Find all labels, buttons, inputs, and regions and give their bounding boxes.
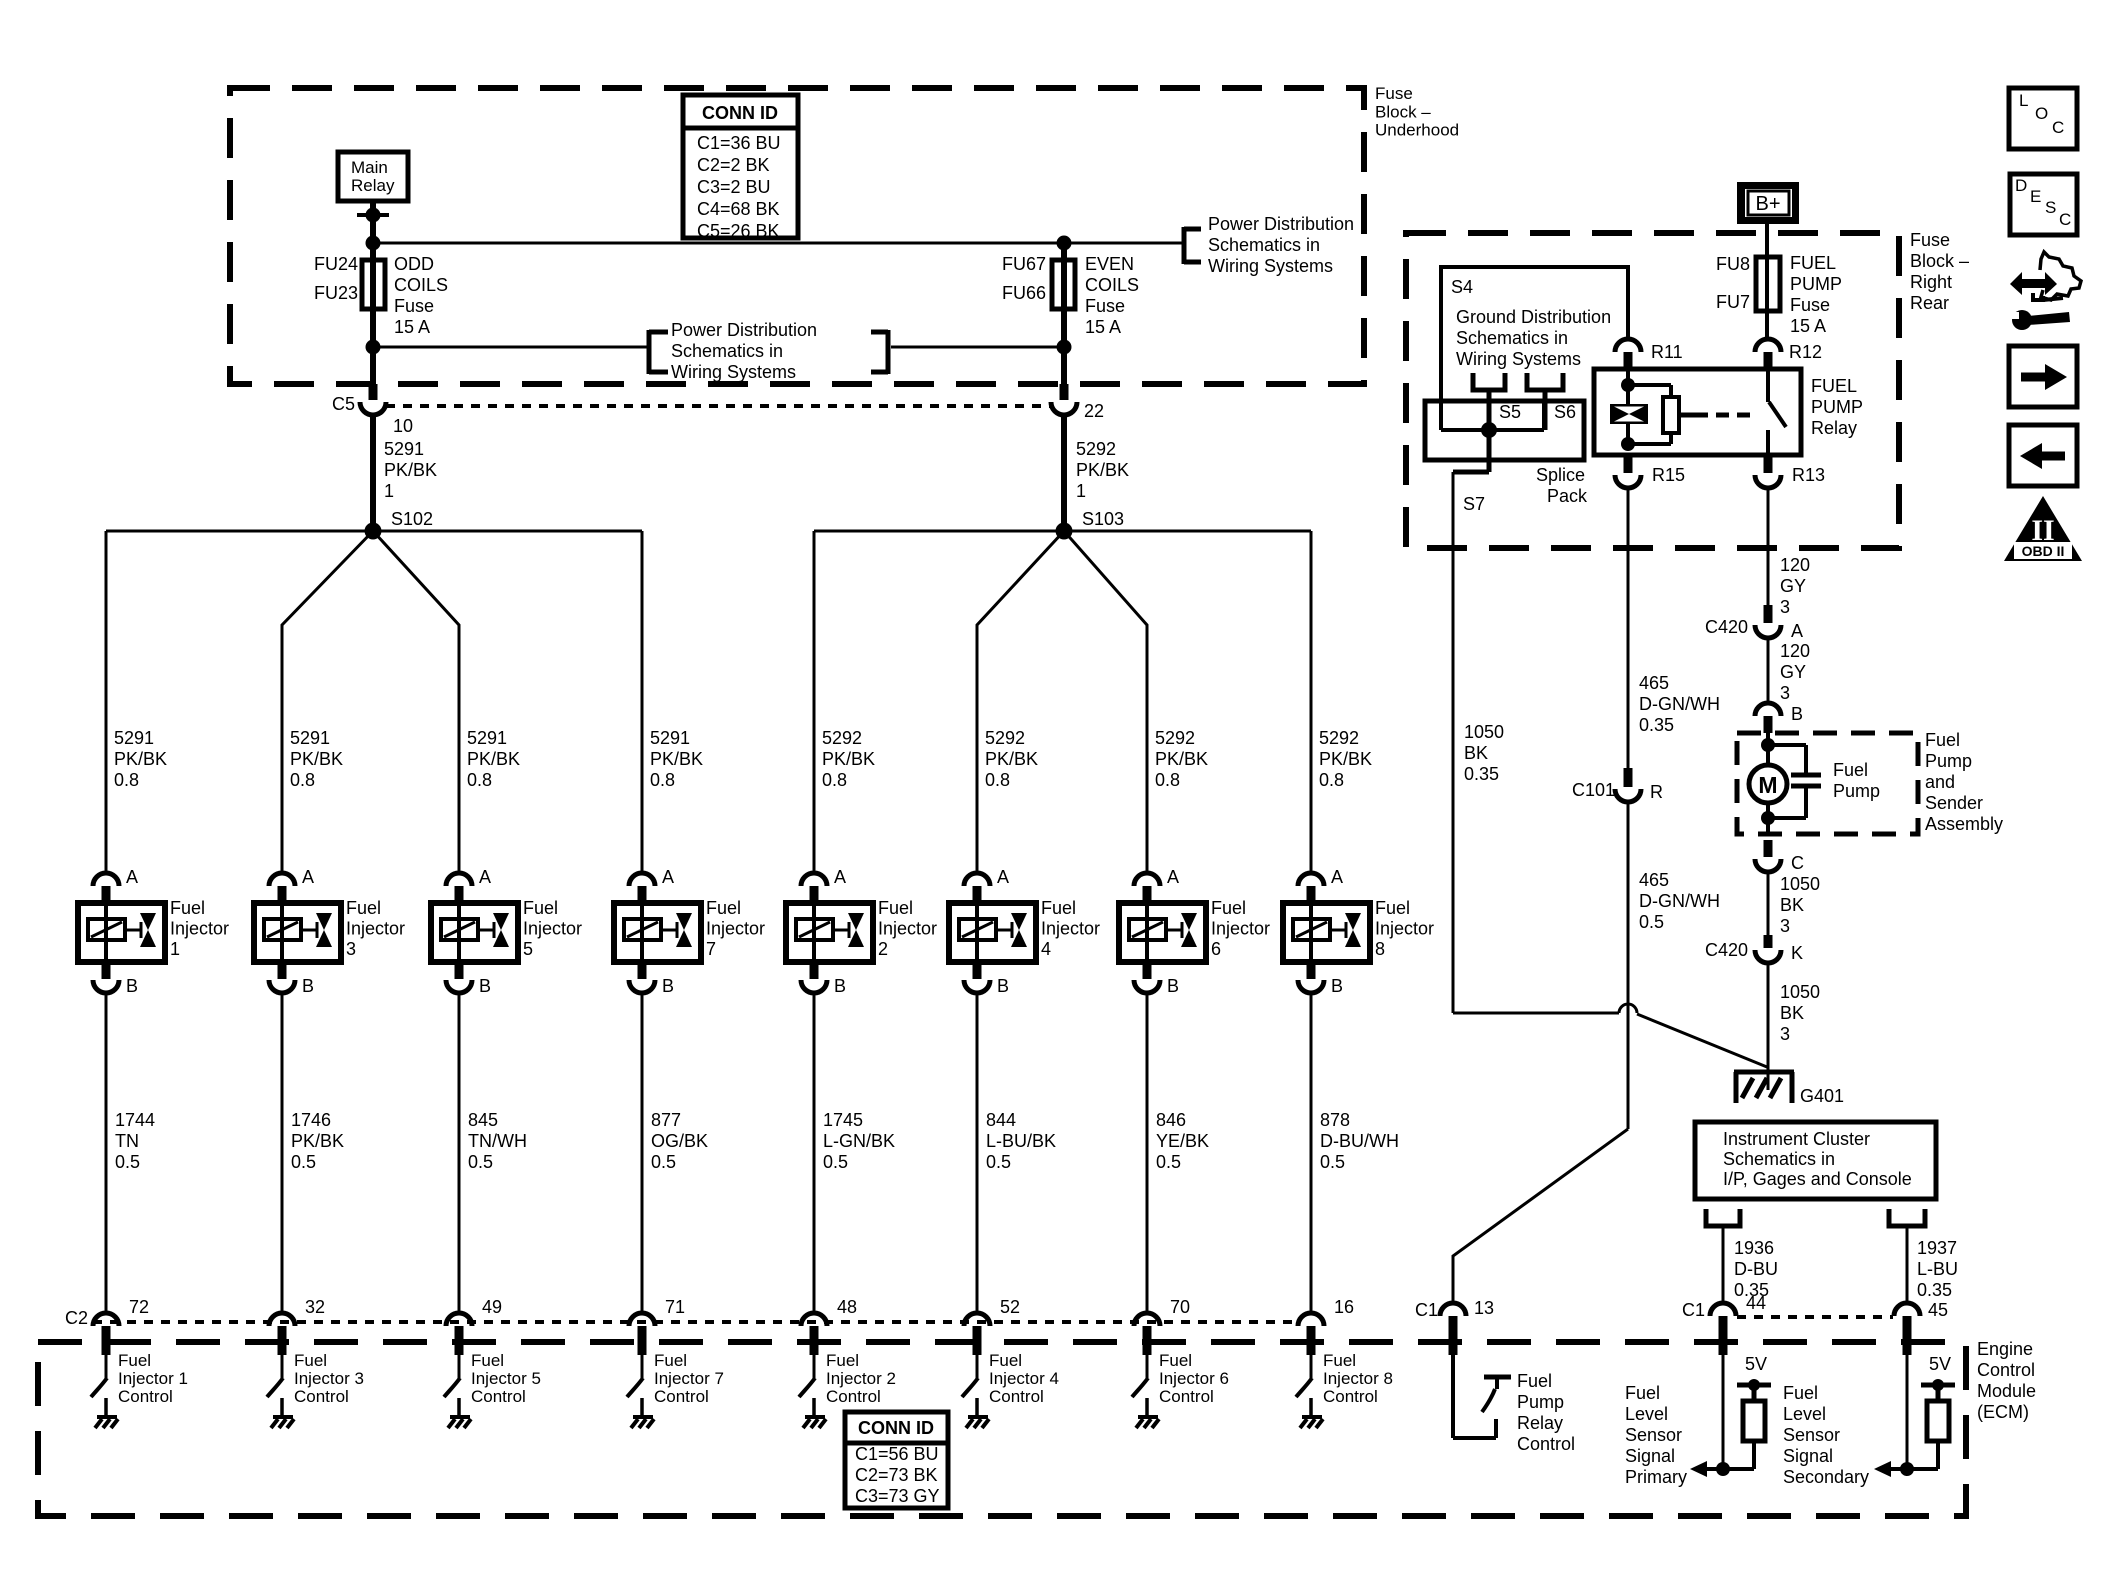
- svg-text:OBD II: OBD II: [2022, 543, 2065, 559]
- svg-text:B: B: [834, 976, 846, 996]
- svg-text:15 A: 15 A: [1085, 317, 1121, 337]
- label wire 5291 PK/BK 0.8 at x=642: [650, 728, 703, 790]
- svg-text:C: C: [2059, 210, 2071, 229]
- svg-text:Relay: Relay: [1517, 1413, 1563, 1433]
- svg-text:120: 120: [1780, 555, 1810, 575]
- svg-text:C4=68 BK: C4=68 BK: [697, 199, 780, 219]
- svg-text:Fuel: Fuel: [1517, 1371, 1552, 1391]
- svg-text:FU67: FU67: [1002, 254, 1046, 274]
- label fuel level sensor signal secondary: [1783, 1383, 1869, 1487]
- fuse FU67/FU66 EVEN COILS 15A: [1002, 236, 1139, 391]
- svg-text:0.8: 0.8: [650, 770, 675, 790]
- svg-text:Power Distribution: Power Distribution: [1208, 214, 1354, 234]
- wire S102 branch inj1: [105, 531, 108, 873]
- svg-text:845: 845: [468, 1110, 498, 1130]
- wire injector 7 control: [641, 993, 644, 1313]
- label fuel pump relay control: [1517, 1371, 1575, 1454]
- svg-text:Injector 5: Injector 5: [471, 1369, 541, 1388]
- svg-text:Block –: Block –: [1375, 102, 1431, 121]
- svg-text:B: B: [1167, 976, 1179, 996]
- svg-text:0.35: 0.35: [1917, 1280, 1952, 1300]
- svg-text:I/P, Gages and Console: I/P, Gages and Console: [1723, 1169, 1912, 1189]
- fuel injector 5: [431, 867, 582, 996]
- svg-text:Fuel: Fuel: [1041, 898, 1076, 918]
- wire B+ to fuel pump fuse: [1765, 224, 1769, 340]
- label wire 5291 PK/BK 0.8 at x=459: [467, 728, 520, 790]
- connector C1 pin 13: [1415, 1298, 1494, 1355]
- svg-text:70: 70: [1170, 1297, 1190, 1317]
- svg-text:Injector: Injector: [1375, 919, 1434, 939]
- svg-text:0.5: 0.5: [986, 1152, 1011, 1172]
- svg-text:22: 22: [1084, 401, 1104, 421]
- svg-text:Schematics in: Schematics in: [1723, 1149, 1835, 1169]
- svg-text:C1=36 BU: C1=36 BU: [697, 133, 781, 153]
- node junction odd coils feed: [366, 236, 381, 251]
- svg-text:Control: Control: [1977, 1360, 2035, 1380]
- svg-text:PK/BK: PK/BK: [114, 749, 167, 769]
- wire S103 horizontal fan: [814, 530, 1311, 533]
- svg-text:Module: Module: [1977, 1381, 2036, 1401]
- connector R11: [1615, 339, 1683, 369]
- connector C2 pin 52: [964, 1297, 1020, 1355]
- svg-text:10: 10: [393, 416, 413, 436]
- svg-text:13: 13: [1474, 1298, 1494, 1318]
- svg-text:and: and: [1925, 772, 1955, 792]
- svg-text:844: 844: [986, 1110, 1016, 1130]
- splice pack box: [1425, 401, 1588, 506]
- wire injector 2 control: [813, 993, 816, 1313]
- wire 1936 D-BU 0.35: [1723, 1226, 1778, 1303]
- connector R13: [1755, 455, 1825, 488]
- label fuel pump and sender assembly: [1925, 730, 2003, 834]
- svg-text:32: 32: [305, 1297, 325, 1317]
- svg-text:Injector 1: Injector 1: [118, 1369, 188, 1388]
- svg-text:C1: C1: [1415, 1300, 1438, 1320]
- svg-text:Assembly: Assembly: [1925, 814, 2003, 834]
- svg-text:Fuse: Fuse: [1085, 296, 1125, 316]
- svg-text:B: B: [126, 976, 138, 996]
- svg-text:B: B: [479, 976, 491, 996]
- svg-text:COILS: COILS: [1085, 275, 1139, 295]
- svg-text:Instrument Cluster: Instrument Cluster: [1723, 1129, 1870, 1149]
- svg-text:Level: Level: [1783, 1404, 1826, 1424]
- svg-text:Control: Control: [1159, 1387, 1214, 1406]
- svg-text:Underhood: Underhood: [1375, 121, 1459, 140]
- label wire 877 OG/BK 0.5: [651, 1110, 708, 1172]
- svg-text:G401: G401: [1800, 1086, 1844, 1106]
- svg-text:C: C: [2052, 118, 2064, 137]
- svg-text:52: 52: [1000, 1297, 1020, 1317]
- svg-text:R: R: [1650, 782, 1663, 802]
- svg-text:BK: BK: [1780, 1003, 1804, 1023]
- svg-text:Primary: Primary: [1625, 1467, 1687, 1487]
- label wire 1745 L-GN/BK 0.5: [823, 1110, 895, 1172]
- svg-text:0.35: 0.35: [1464, 764, 1499, 784]
- svg-text:Injector 4: Injector 4: [989, 1369, 1059, 1388]
- svg-text:S6: S6: [1554, 402, 1576, 422]
- connector bracket S4 left: [1473, 373, 1505, 430]
- label fuel injector 3 control: [294, 1351, 364, 1406]
- callout bracket top-right power distribution: [1184, 214, 1354, 276]
- svg-text:FU24: FU24: [314, 254, 358, 274]
- wire S102 branch inj3: [282, 531, 373, 873]
- connector C5 pin 10: [332, 384, 413, 436]
- label wire 844 L-BU/BK 0.5: [986, 1110, 1056, 1172]
- ground G401: [1734, 1072, 1844, 1106]
- wire 465 D-GN/WH 0.5: [1628, 801, 1720, 1129]
- label wire 1746 PK/BK 0.5: [291, 1110, 344, 1172]
- svg-text:Fuel: Fuel: [878, 898, 913, 918]
- svg-text:PK/BK: PK/BK: [1155, 749, 1208, 769]
- svg-text:B+: B+: [1755, 193, 1780, 215]
- connector C2 pin 70: [1134, 1297, 1190, 1355]
- svg-text:C: C: [1791, 853, 1804, 873]
- svg-text:A: A: [126, 867, 138, 887]
- wire diagonal to G401: [1637, 1014, 1767, 1067]
- svg-text:Fuel: Fuel: [1925, 730, 1960, 750]
- svg-text:A: A: [997, 867, 1009, 887]
- svg-text:0.8: 0.8: [1155, 770, 1180, 790]
- fuel injector 2: [786, 867, 937, 996]
- conn id table ecm: [845, 1412, 948, 1508]
- svg-text:Pump: Pump: [1833, 781, 1880, 801]
- svg-text:A: A: [1331, 867, 1343, 887]
- label wire 846 YE/BK 0.5: [1156, 1110, 1209, 1172]
- svg-text:Fuel: Fuel: [1159, 1351, 1192, 1370]
- icon OBD II: [2004, 496, 2082, 561]
- label wire 5292 PK/BK 0.8 at x=977: [985, 728, 1038, 790]
- svg-text:Injector 3: Injector 3: [294, 1369, 364, 1388]
- wire S103 branch inj4: [977, 531, 1064, 873]
- svg-text:5292: 5292: [822, 728, 862, 748]
- fuel pump relay control switch: [1453, 1355, 1511, 1438]
- label Engine Control Module (ECM): [1977, 1339, 2036, 1422]
- svg-text:FU7: FU7: [1716, 292, 1750, 312]
- svg-text:1050: 1050: [1780, 874, 1820, 894]
- svg-text:Wiring Systems: Wiring Systems: [1208, 256, 1333, 276]
- driver switch fuel injector 2 control: [799, 1355, 826, 1428]
- svg-text:Fuel: Fuel: [294, 1351, 327, 1370]
- svg-text:PK/BK: PK/BK: [985, 749, 1038, 769]
- svg-text:D-GN/WH: D-GN/WH: [1639, 694, 1720, 714]
- relay switch: [1768, 369, 1786, 455]
- svg-text:Sender: Sender: [1925, 793, 1983, 813]
- svg-text:Engine: Engine: [1977, 1339, 2033, 1359]
- svg-text:465: 465: [1639, 870, 1669, 890]
- svg-text:L-BU/BK: L-BU/BK: [986, 1131, 1056, 1151]
- svg-text:Main: Main: [351, 158, 388, 177]
- svg-text:R11: R11: [1651, 342, 1683, 362]
- svg-text:Signal: Signal: [1625, 1446, 1675, 1466]
- svg-text:D: D: [2015, 176, 2027, 195]
- svg-text:15 A: 15 A: [1790, 316, 1826, 336]
- svg-text:877: 877: [651, 1110, 681, 1130]
- svg-text:(ECM): (ECM): [1977, 1402, 2029, 1422]
- driver switch fuel injector 8 control: [1296, 1355, 1323, 1428]
- driver switch fuel injector 1 control: [91, 1355, 118, 1428]
- svg-text:L-GN/BK: L-GN/BK: [823, 1131, 895, 1151]
- svg-text:PK/BK: PK/BK: [384, 460, 437, 480]
- svg-text:PK/BK: PK/BK: [1076, 460, 1129, 480]
- svg-text:120: 120: [1780, 641, 1810, 661]
- svg-text:C2=73 BK: C2=73 BK: [855, 1465, 938, 1485]
- connector C2 pin 49: [446, 1297, 502, 1355]
- svg-text:Control: Control: [118, 1387, 173, 1406]
- svg-text:1937: 1937: [1917, 1238, 1957, 1258]
- wire S102 horizontal fan: [106, 530, 642, 533]
- svg-text:Wiring Systems: Wiring Systems: [1456, 349, 1581, 369]
- label wire 1744 TN 0.5: [115, 1110, 155, 1172]
- label fuel injector 1 control: [118, 1351, 188, 1406]
- icon arrow left: [2009, 425, 2077, 486]
- wire main relay to C5: [370, 201, 376, 390]
- svg-text:0.5: 0.5: [1156, 1152, 1181, 1172]
- connector C420 pin A: [1705, 605, 1803, 641]
- svg-text:PUMP: PUMP: [1790, 274, 1842, 294]
- svg-text:Fuel: Fuel: [1783, 1383, 1818, 1403]
- svg-text:C3=73 GY: C3=73 GY: [855, 1486, 940, 1506]
- svg-text:E: E: [2030, 187, 2041, 206]
- connector line C1 dotted: [1737, 1315, 1893, 1319]
- fuel level sensor signal secondary circuit: [1874, 1354, 1955, 1477]
- svg-text:48: 48: [837, 1297, 857, 1317]
- svg-text:PK/BK: PK/BK: [650, 749, 703, 769]
- svg-text:0.8: 0.8: [290, 770, 315, 790]
- fuel pump capacitor: [1768, 745, 1880, 818]
- svg-text:Injector: Injector: [1211, 919, 1270, 939]
- svg-text:72: 72: [129, 1297, 149, 1317]
- relay coil: [1610, 369, 1648, 451]
- svg-text:Injector 8: Injector 8: [1323, 1369, 1393, 1388]
- svg-text:0.8: 0.8: [114, 770, 139, 790]
- connector C101 pin R: [1572, 768, 1663, 802]
- svg-text:Level: Level: [1625, 1404, 1668, 1424]
- label fuel injector 4 control: [989, 1351, 1059, 1406]
- svg-text:15 A: 15 A: [394, 317, 430, 337]
- svg-text:B: B: [302, 976, 314, 996]
- fuse FU8/FU7 FUEL PUMP 15A: [1716, 253, 1842, 336]
- svg-text:Control: Control: [1323, 1387, 1378, 1406]
- svg-text:Secondary: Secondary: [1783, 1467, 1869, 1487]
- svg-text:R13: R13: [1792, 465, 1825, 485]
- svg-text:R15: R15: [1652, 465, 1685, 485]
- svg-text:PK/BK: PK/BK: [467, 749, 520, 769]
- fuel injector 6: [1119, 867, 1270, 996]
- fuel injector 1: [78, 867, 229, 996]
- label fuel injector 5 control: [471, 1351, 541, 1406]
- svg-text:Fuel: Fuel: [1375, 898, 1410, 918]
- connector bracket cluster left: [1706, 1209, 1740, 1226]
- svg-text:C2=2 BK: C2=2 BK: [697, 155, 770, 175]
- svg-text:D-GN/WH: D-GN/WH: [1639, 891, 1720, 911]
- svg-text:5291: 5291: [467, 728, 507, 748]
- svg-text:0.5: 0.5: [1320, 1152, 1345, 1172]
- icon arrow right: [2009, 346, 2077, 407]
- svg-text:C1: C1: [1682, 1300, 1705, 1320]
- svg-text:Injector: Injector: [706, 919, 765, 939]
- instrument cluster box: [1695, 1122, 1936, 1199]
- fuel injector 7: [614, 867, 765, 996]
- svg-text:1: 1: [170, 939, 180, 959]
- driver switch fuel injector 7 control: [627, 1355, 654, 1428]
- svg-text:Sensor: Sensor: [1625, 1425, 1682, 1445]
- svg-text:FUEL: FUEL: [1790, 253, 1836, 273]
- svg-text:R12: R12: [1789, 342, 1822, 362]
- splice node S5: [1481, 422, 1497, 438]
- svg-text:5V: 5V: [1929, 1354, 1951, 1374]
- splice S103: [1056, 509, 1125, 540]
- svg-text:0.5: 0.5: [1639, 912, 1664, 932]
- svg-text:D-BU/WH: D-BU/WH: [1320, 1131, 1399, 1151]
- svg-text:EVEN: EVEN: [1085, 254, 1134, 274]
- driver switch fuel injector 4 control: [962, 1355, 989, 1428]
- svg-text:0.5: 0.5: [115, 1152, 140, 1172]
- wire 120 GY 3 upper: [1768, 488, 1810, 617]
- svg-text:PK/BK: PK/BK: [1319, 749, 1372, 769]
- svg-text:5V: 5V: [1745, 1354, 1767, 1374]
- connector line C2 dotted: [93, 1320, 1300, 1324]
- svg-text:0.5: 0.5: [291, 1152, 316, 1172]
- svg-text:BK: BK: [1464, 743, 1488, 763]
- label C2: [65, 1308, 88, 1328]
- svg-text:1050: 1050: [1780, 982, 1820, 1002]
- connector line C5 dotted: [386, 404, 1051, 408]
- wire 5292 PK/BK 1: [1064, 415, 1129, 531]
- svg-text:5292: 5292: [1076, 439, 1116, 459]
- connector C5 pin 22: [1051, 384, 1104, 421]
- label wire 845 TN/WH 0.5: [468, 1110, 527, 1172]
- svg-text:Relay: Relay: [351, 176, 395, 195]
- svg-text:5291: 5291: [114, 728, 154, 748]
- splice S102: [365, 509, 434, 540]
- svg-text:C3=2 BU: C3=2 BU: [697, 177, 771, 197]
- relay resistor: [1628, 385, 1695, 444]
- svg-text:71: 71: [665, 1297, 685, 1317]
- svg-text:C420: C420: [1705, 617, 1748, 637]
- svg-text:S103: S103: [1082, 509, 1124, 529]
- svg-text:16: 16: [1334, 1297, 1354, 1317]
- wire 1050 BK 0.35 horizontal with hop: [1453, 722, 1637, 1013]
- svg-text:YE/BK: YE/BK: [1156, 1131, 1209, 1151]
- icon vehicle wrench: [2010, 252, 2081, 330]
- connector C2 pin 71: [629, 1297, 685, 1355]
- wire S103 branch inj6: [1064, 531, 1147, 873]
- svg-text:Pump: Pump: [1925, 751, 1972, 771]
- svg-text:6: 6: [1211, 939, 1221, 959]
- connector pin C: [1755, 840, 1804, 873]
- wire injector 3 control: [281, 993, 284, 1313]
- splice box S4: [1441, 267, 1628, 430]
- svg-text:CONN ID: CONN ID: [858, 1418, 934, 1438]
- svg-text:Pump: Pump: [1517, 1392, 1564, 1412]
- svg-text:Schematics in: Schematics in: [1456, 328, 1568, 348]
- svg-text:1744: 1744: [115, 1110, 155, 1130]
- svg-text:846: 846: [1156, 1110, 1186, 1130]
- svg-text:2: 2: [878, 939, 888, 959]
- svg-text:Fuel: Fuel: [1211, 898, 1246, 918]
- svg-text:Block –: Block –: [1910, 251, 1969, 271]
- connector C1 pin 44: [1682, 1293, 1766, 1355]
- engine control module dashed box: [38, 1342, 1966, 1516]
- svg-text:0.35: 0.35: [1639, 715, 1674, 735]
- svg-text:45: 45: [1928, 1300, 1948, 1320]
- svg-text:Fuel: Fuel: [170, 898, 205, 918]
- svg-text:1746: 1746: [291, 1110, 331, 1130]
- wire injector 4 control: [976, 993, 979, 1313]
- wire 465 D-GN/WH 0.35: [1628, 488, 1720, 768]
- wire 5291 PK/BK 1: [373, 415, 437, 531]
- svg-text:5292: 5292: [1319, 728, 1359, 748]
- driver switch fuel injector 6 control: [1132, 1355, 1159, 1428]
- svg-text:B: B: [997, 976, 1009, 996]
- svg-text:Rear: Rear: [1910, 293, 1949, 313]
- svg-text:PK/BK: PK/BK: [290, 749, 343, 769]
- fuel pump motor: [1749, 733, 1787, 834]
- svg-text:GY: GY: [1780, 662, 1806, 682]
- connector R12: [1755, 339, 1822, 369]
- wire injector 6 control: [1146, 993, 1149, 1313]
- svg-text:OG/BK: OG/BK: [651, 1131, 708, 1151]
- label wire 5292 PK/BK 0.8 at x=1147: [1155, 728, 1208, 790]
- wire S102 branch inj7: [641, 531, 644, 873]
- svg-text:Fuse: Fuse: [1375, 84, 1413, 103]
- svg-text:BK: BK: [1780, 895, 1804, 915]
- conn id table underhood: [683, 95, 798, 241]
- svg-text:465: 465: [1639, 673, 1669, 693]
- svg-text:Fuel: Fuel: [826, 1351, 859, 1370]
- svg-text:D-BU: D-BU: [1734, 1259, 1778, 1279]
- svg-text:7: 7: [706, 939, 716, 959]
- svg-text:Injector 6: Injector 6: [1159, 1369, 1229, 1388]
- wire to ECM pin 13: [1453, 1129, 1628, 1303]
- svg-text:FU23: FU23: [314, 283, 358, 303]
- label wire 5291 PK/BK 0.8 at x=282: [290, 728, 343, 790]
- label Fuse Block - Right Rear: [1910, 230, 1969, 313]
- svg-text:L: L: [2019, 91, 2028, 110]
- wire lower distribution bus left: [373, 346, 647, 349]
- svg-text:0.8: 0.8: [1319, 770, 1344, 790]
- wire lower distribution bus right: [891, 346, 1064, 349]
- svg-text:Fuel: Fuel: [706, 898, 741, 918]
- svg-text:L-BU: L-BU: [1917, 1259, 1958, 1279]
- node junction below odd fuse: [366, 340, 381, 355]
- wire S103 branch inj2: [813, 531, 816, 873]
- fuse FU24/FU23 ODD COILS 15A: [314, 254, 448, 337]
- svg-text:44: 44: [1746, 1293, 1766, 1313]
- wire 1937 L-BU 0.35: [1907, 1226, 1958, 1303]
- svg-text:ODD: ODD: [394, 254, 434, 274]
- svg-text:A: A: [662, 867, 674, 887]
- svg-text:1745: 1745: [823, 1110, 863, 1130]
- svg-text:A: A: [302, 867, 314, 887]
- svg-text:Fuel: Fuel: [1833, 760, 1868, 780]
- svg-text:FU66: FU66: [1002, 283, 1046, 303]
- svg-text:4: 4: [1041, 939, 1051, 959]
- svg-text:Ground Distribution: Ground Distribution: [1456, 307, 1611, 327]
- svg-text:3: 3: [1780, 1024, 1790, 1044]
- svg-text:Fuel: Fuel: [523, 898, 558, 918]
- svg-text:TN: TN: [115, 1131, 139, 1151]
- svg-text:C101: C101: [1572, 780, 1615, 800]
- svg-text:Fuse: Fuse: [394, 296, 434, 316]
- wire 120 GY 3 lower: [1768, 638, 1810, 703]
- label fuel injector 7 control: [654, 1351, 724, 1406]
- svg-text:B: B: [1331, 976, 1343, 996]
- svg-text:PK/BK: PK/BK: [822, 749, 875, 769]
- svg-text:C5: C5: [332, 394, 355, 414]
- svg-text:TN/WH: TN/WH: [468, 1131, 527, 1151]
- wire injector 5 control: [458, 993, 461, 1313]
